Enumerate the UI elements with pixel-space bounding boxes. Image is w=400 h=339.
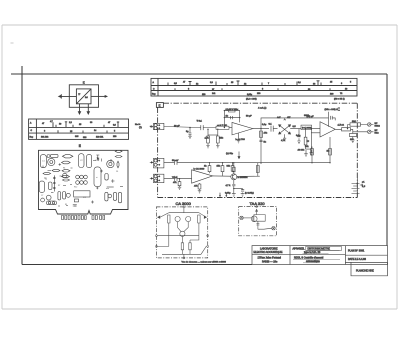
svg-text:600Ω: 600Ω <box>375 126 381 128</box>
svg-text:R4: R4 <box>63 168 65 170</box>
svg-text:T2: T2 <box>45 179 47 181</box>
svg-text:le CA 3000: le CA 3000 <box>194 167 205 170</box>
svg-text:20 μF: 20 μF <box>174 125 180 127</box>
svg-text:Ti 0,1: Ti 0,1 <box>197 120 203 122</box>
svg-text:(10) μF: (10) μF <box>307 116 315 118</box>
svg-text:C7: C7 <box>41 195 43 197</box>
svg-text:85: 85 <box>65 204 67 206</box>
svg-text:101 102: 101 102 <box>41 137 49 139</box>
svg-text:(20k + 100) Ω: (20k + 100) Ω <box>325 109 339 111</box>
svg-text:0,05μ: 0,05μ <box>225 193 231 195</box>
svg-text:E: E <box>83 80 85 84</box>
svg-text:0,1μ: 0,1μ <box>296 135 301 137</box>
svg-text:77: 77 <box>78 94 80 96</box>
svg-text:E: E <box>79 144 81 148</box>
svg-text:R12: R12 <box>74 187 77 189</box>
svg-text:type E.H.D. 25: type E.H.D. 25 <box>304 251 321 254</box>
svg-text:40 10k: 40 10k <box>298 150 305 152</box>
svg-text:(± 0,05μ): (± 0,05μ) <box>245 193 254 195</box>
svg-text:le 2N3904: le 2N3904 <box>238 177 249 179</box>
svg-text:(+) 12 V 6Mx: (+) 12 V 6Mx <box>226 109 239 111</box>
svg-text:(+) 68p: (+) 68p <box>226 153 234 155</box>
svg-text:0,05μ: 0,05μ <box>247 94 252 96</box>
svg-text:50Ω: 50Ω <box>375 133 379 135</box>
svg-text:PARIS — 19e: PARIS — 19e <box>262 260 278 263</box>
svg-text:automatique: automatique <box>306 260 320 263</box>
svg-text:120 121: 120 121 <box>96 137 104 139</box>
svg-text:50 mV: 50 mV <box>172 160 179 162</box>
svg-text:Ti 0,1: Ti 0,1 <box>172 177 178 179</box>
svg-text:R7: R7 <box>58 185 60 187</box>
svg-text:DATE LE 4.4.68: DATE LE 4.4.68 <box>348 258 366 261</box>
svg-text:(7): (7) <box>139 127 142 129</box>
svg-text:1:6: 1:6 <box>85 97 88 99</box>
svg-text:(4,2 × 200): (4,2 × 200) <box>246 97 257 100</box>
svg-text:(90 × 85 1): (90 × 85 1) <box>334 97 345 100</box>
svg-text:ELECTRO ACOUSTIQUE: ELECTRO ACOUSTIQUE <box>254 251 283 254</box>
svg-text:50Ω: 50Ω <box>352 121 356 123</box>
svg-text:CA 3000: CA 3000 <box>176 201 192 206</box>
svg-text:Vue de dessous — valeurs sur ±: Vue de dessous — valeurs sur ±5000 et 30… <box>182 261 227 264</box>
svg-text:4,7k Ω: 4,7k Ω <box>338 124 345 126</box>
svg-text:mi 4,7 MΩ: mi 4,7 MΩ <box>217 125 227 127</box>
svg-text:TAA 320: TAA 320 <box>250 201 266 206</box>
svg-text:le μA 709: le μA 709 <box>236 138 246 141</box>
svg-text:17Rue Jules Ferrand: 17Rue Jules Ferrand <box>258 257 282 260</box>
svg-text:0,1μ: 0,1μ <box>262 124 267 126</box>
svg-text:D1: D1 <box>116 171 118 173</box>
svg-text:mw: mw <box>106 188 110 190</box>
svg-text:B·C 3000: B·C 3000 <box>302 127 312 129</box>
svg-text:PLANCHE HRE: PLANCHE HRE <box>356 269 374 272</box>
svg-text:E: E <box>159 103 161 107</box>
svg-text:R9: R9 <box>96 160 98 162</box>
svg-text:50 μF: 50 μF <box>246 116 252 118</box>
svg-text:PLAN N° 3091: PLAN N° 3091 <box>348 250 365 253</box>
svg-text:4 mA (+): 4 mA (+) <box>258 107 267 110</box>
